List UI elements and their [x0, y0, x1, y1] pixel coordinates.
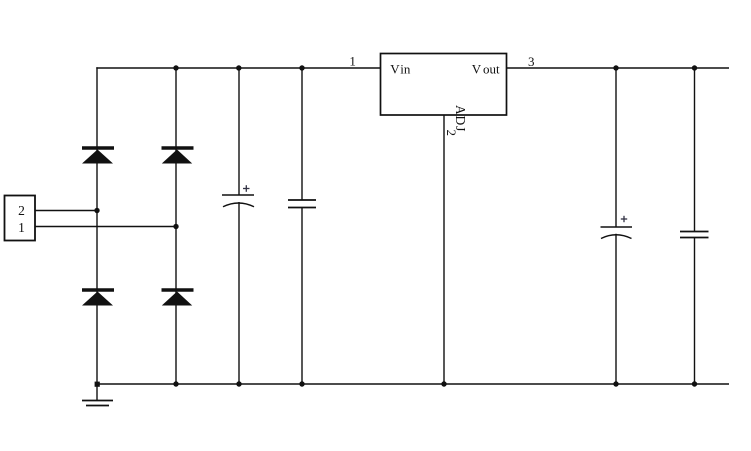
wire output rail — [507, 67, 729, 69]
pin Vout label — [472, 62, 500, 77]
junction ground rail at right bridge branch — [173, 381, 178, 386]
capacitor C4 bottom plate — [680, 237, 709, 239]
svg-text:2: 2 — [18, 203, 25, 218]
ground bar 1 — [82, 400, 113, 402]
node 1 label — [349, 54, 356, 69]
svg-text:V: V — [472, 62, 482, 77]
connector J1 — [5, 196, 36, 241]
capacitor C4 top lead — [694, 68, 696, 232]
wire top input rail — [96, 67, 380, 69]
junction ground rail at C2 — [299, 381, 304, 386]
svg-text:1: 1 — [18, 220, 25, 235]
pin 1 label — [18, 220, 25, 235]
svg-text:1: 1 — [349, 54, 356, 69]
junction node left bridge midpoint — [94, 208, 99, 213]
junction output rail at C4 — [692, 65, 697, 70]
capacitor C2 bottom plate — [288, 207, 316, 209]
capacitor C3 bottom lead — [615, 234, 617, 384]
wire pin2 to left bridge node — [35, 210, 97, 212]
capacitor C4 bottom lead — [694, 238, 696, 385]
svg-text:V: V — [390, 62, 400, 77]
junction top rail at C2 — [299, 65, 304, 70]
svg-text:2: 2 — [444, 130, 459, 137]
regulator U1 — [381, 54, 507, 116]
capacitor C3 top lead — [615, 68, 617, 227]
junction ground rail at left bridge branch (square) — [95, 382, 100, 387]
ground stem — [96, 384, 98, 401]
capacitor C1 curved plate — [223, 203, 254, 207]
capacitor C1 positive plate — [222, 194, 254, 196]
wire pin1 to right bridge node — [35, 226, 176, 228]
pin 2 label — [18, 203, 25, 218]
wire ground rail — [97, 383, 729, 385]
pin ADJ label (rotated) — [453, 105, 468, 132]
junction ground rail at ADJ — [441, 381, 446, 386]
wire ADJ to ground rail — [443, 115, 445, 384]
diode D1 — [82, 148, 114, 164]
junction output rail at C3 — [613, 65, 618, 70]
diode D4 — [162, 290, 194, 306]
node 3 label — [528, 54, 535, 69]
junction ground rail at C1 — [236, 381, 241, 386]
junction top rail at C1 — [236, 65, 241, 70]
junction ground rail at C4 — [692, 381, 697, 386]
capacitor C2 bottom lead — [301, 208, 303, 385]
junction ground rail at C3 — [613, 381, 618, 386]
svg-text:in: in — [400, 62, 411, 77]
diode D3 — [82, 290, 114, 306]
capacitor C2 top plate — [288, 199, 316, 201]
svg-text:3: 3 — [528, 54, 535, 69]
svg-text:out: out — [483, 62, 500, 77]
ground bar 2 — [86, 405, 109, 407]
wire left bridge branch — [96, 67, 98, 384]
capacitor C3 plus sign — [621, 216, 627, 222]
wire right bridge branch — [175, 68, 177, 384]
diode D2 — [162, 148, 194, 164]
capacitor C1 plus sign — [243, 185, 250, 192]
capacitor C2 top lead — [301, 68, 303, 200]
junction node right bridge midpoint — [173, 224, 178, 229]
capacitor C3 curved plate — [601, 235, 632, 239]
junction top rail at right bridge branch — [173, 65, 178, 70]
svg-text:ADJ: ADJ — [453, 105, 468, 132]
capacitor C4 top plate — [680, 231, 709, 233]
pin Vin label — [390, 62, 411, 77]
pin 2 number label (rotated) — [444, 130, 459, 137]
capacitor C1 bottom lead — [238, 202, 240, 384]
capacitor C3 positive plate — [601, 226, 633, 228]
capacitor C1 top lead — [238, 68, 240, 195]
